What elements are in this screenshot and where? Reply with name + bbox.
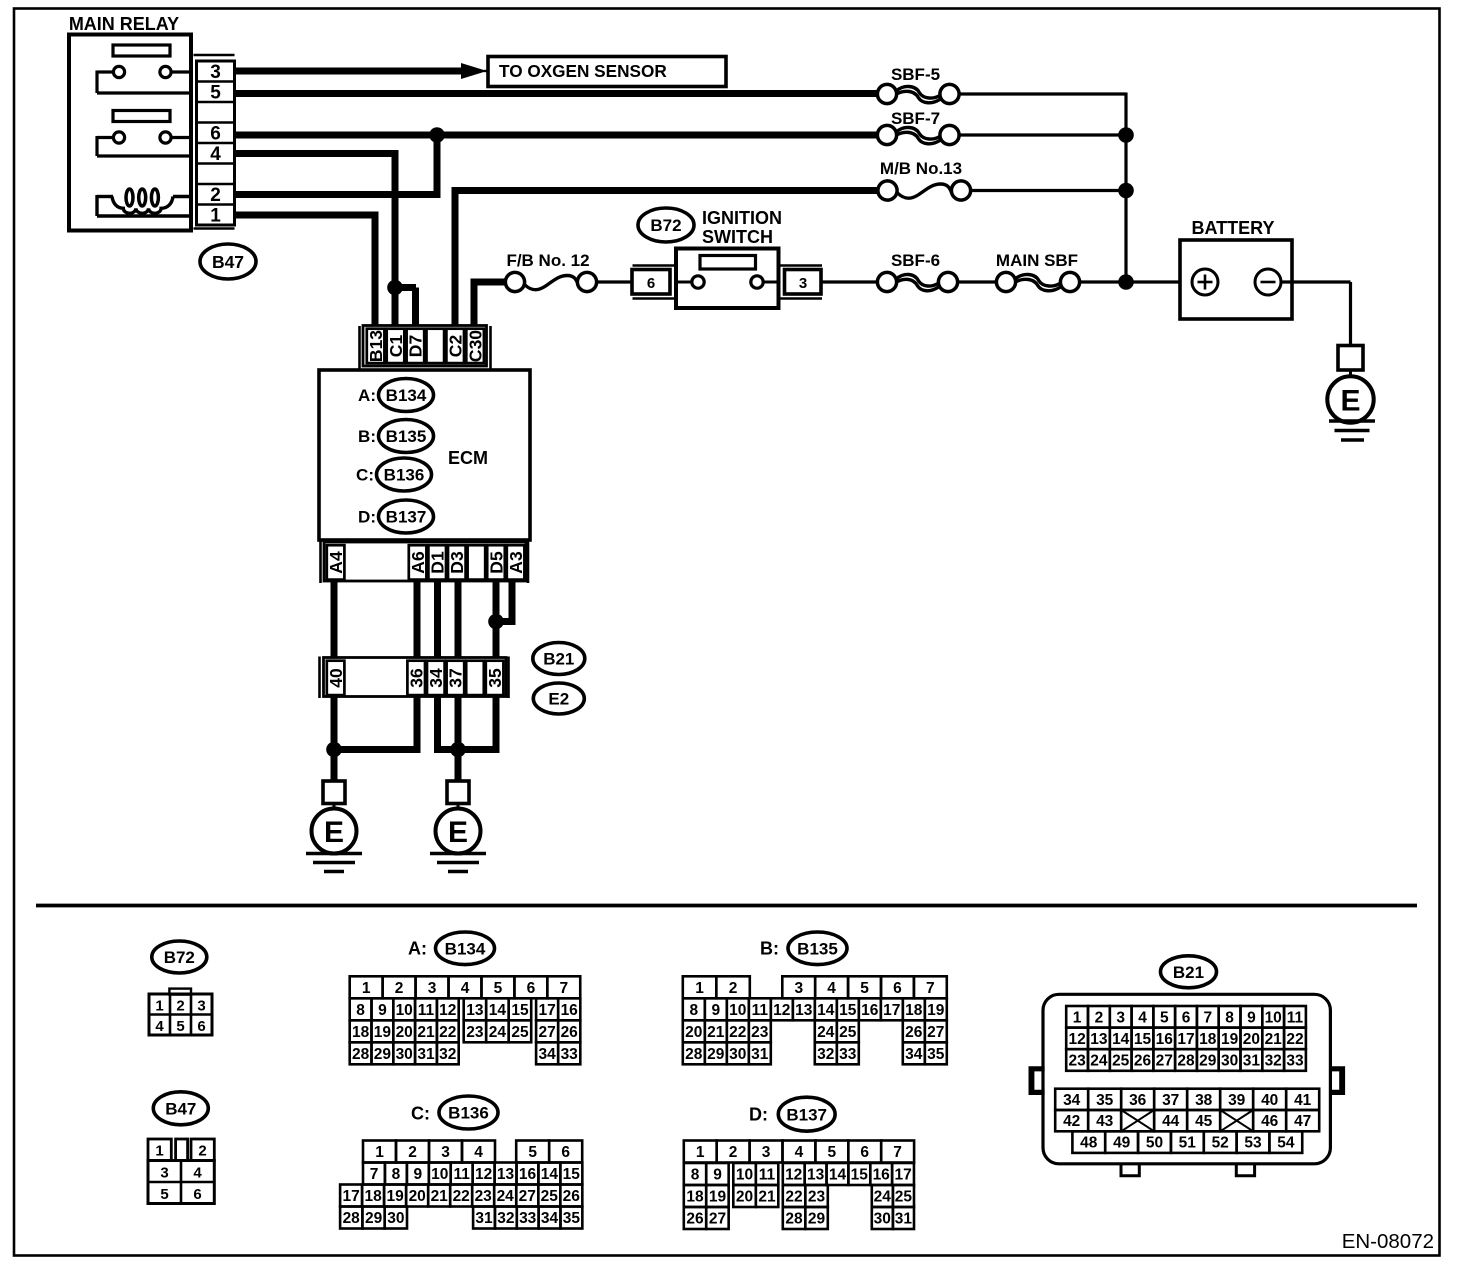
- svg-text:14: 14: [541, 1166, 559, 1183]
- svg-text:19: 19: [709, 1189, 727, 1206]
- wire pin6 to SBF-7: [235, 132, 878, 139]
- svg-text:21: 21: [417, 1024, 435, 1041]
- svg-text:9: 9: [1247, 1009, 1256, 1026]
- svg-text:5: 5: [528, 1144, 537, 1161]
- wire pin3 box to SBF-6: [822, 280, 878, 283]
- svg-text:B136: B136: [448, 1104, 489, 1123]
- svg-text:48: 48: [1080, 1135, 1098, 1152]
- svg-text:17: 17: [1177, 1031, 1194, 1048]
- svg-text:25: 25: [839, 1024, 857, 1041]
- svg-text:35: 35: [485, 668, 505, 688]
- svg-text:22: 22: [439, 1024, 456, 1041]
- connector ref B137 (bottom): [778, 1097, 835, 1131]
- svg-text:26: 26: [905, 1024, 923, 1041]
- svg-text:24: 24: [1090, 1053, 1108, 1070]
- svg-text:27: 27: [538, 1024, 555, 1041]
- svg-text:23: 23: [751, 1024, 769, 1041]
- svg-text:41: 41: [1294, 1092, 1312, 1109]
- svg-text:47: 47: [1294, 1113, 1311, 1130]
- svg-text:SBF-7: SBF-7: [891, 109, 940, 128]
- svg-text:20: 20: [736, 1189, 753, 1206]
- svg-text:31: 31: [895, 1211, 913, 1228]
- svg-text:25: 25: [541, 1188, 559, 1205]
- svg-text:30: 30: [396, 1046, 413, 1063]
- svg-text:B137: B137: [386, 508, 427, 527]
- svg-text:2: 2: [729, 980, 738, 997]
- connector B21 pin grid: [1055, 1006, 1319, 1153]
- svg-text:23: 23: [466, 1024, 484, 1041]
- svg-text:D7: D7: [406, 335, 426, 357]
- svg-text:34: 34: [1063, 1092, 1081, 1109]
- connector D B137 pin grid: [684, 1141, 914, 1230]
- svg-text:A6: A6: [408, 551, 428, 574]
- svg-text:BATTERY: BATTERY: [1192, 218, 1275, 238]
- svg-text:37: 37: [446, 668, 466, 687]
- wire C2 vertical: [452, 187, 459, 326]
- svg-text:B137: B137: [786, 1105, 827, 1124]
- svg-text:6: 6: [197, 1018, 205, 1035]
- svg-text:4: 4: [827, 980, 836, 997]
- connector label B21: [533, 643, 585, 675]
- wire D1 to 34: [434, 581, 441, 658]
- ground (left): [306, 854, 362, 872]
- svg-text:34: 34: [426, 668, 446, 688]
- svg-text:TO OXGEN SENSOR: TO OXGEN SENSOR: [499, 61, 667, 81]
- junction pin2/pin6: [429, 127, 445, 143]
- svg-text:MAIN SBF: MAIN SBF: [996, 251, 1078, 270]
- svg-text:E2: E2: [548, 690, 569, 709]
- svg-text:5: 5: [210, 83, 221, 104]
- svg-text:18: 18: [905, 1002, 923, 1019]
- ECM top connector strip (B13 C1 D7 C2 C30): [360, 326, 491, 370]
- ignition switch pin 6 box: [632, 266, 676, 299]
- svg-text:17: 17: [342, 1188, 359, 1205]
- svg-text:27: 27: [709, 1211, 726, 1228]
- svg-text:52: 52: [1212, 1135, 1229, 1152]
- svg-text:22: 22: [785, 1189, 802, 1206]
- wire D3 to 37: [455, 581, 462, 658]
- svg-text:20: 20: [1243, 1031, 1260, 1048]
- svg-text:14: 14: [1112, 1031, 1130, 1048]
- svg-text:51: 51: [1179, 1135, 1197, 1152]
- arrowhead: [461, 63, 487, 79]
- svg-text:5: 5: [176, 1018, 184, 1035]
- svg-text:ECM: ECM: [448, 448, 488, 468]
- ignition switch pin 3 box: [779, 266, 823, 299]
- svg-text:5: 5: [494, 980, 503, 997]
- connector label B72: [638, 208, 694, 242]
- connector label B47: [200, 244, 256, 279]
- svg-text:4: 4: [474, 1144, 483, 1161]
- svg-text:43: 43: [1096, 1113, 1114, 1130]
- svg-text:A:: A:: [358, 386, 376, 405]
- svg-text:B134: B134: [445, 939, 486, 958]
- svg-text:3: 3: [1116, 1009, 1125, 1026]
- svg-text:36: 36: [407, 668, 427, 688]
- svg-text:2: 2: [210, 185, 221, 206]
- svg-text:34: 34: [538, 1046, 556, 1063]
- svg-text:11: 11: [418, 1002, 435, 1019]
- svg-text:11: 11: [759, 1167, 776, 1184]
- fuse SBF-7: [877, 125, 959, 144]
- svg-text:14: 14: [489, 1002, 507, 1019]
- svg-text:18: 18: [1199, 1031, 1217, 1048]
- svg-text:D3: D3: [447, 551, 467, 574]
- svg-text:29: 29: [365, 1210, 383, 1227]
- svg-text:1: 1: [210, 206, 221, 227]
- relay contact 2: [97, 132, 191, 156]
- svg-text:C1: C1: [386, 335, 406, 358]
- svg-text:10: 10: [1265, 1009, 1282, 1026]
- svg-text:26: 26: [563, 1188, 581, 1205]
- battery: [1180, 240, 1292, 319]
- connector ref B136: [377, 458, 432, 491]
- svg-text:13: 13: [466, 1002, 484, 1019]
- svg-text:B21: B21: [543, 650, 574, 669]
- svg-text:8: 8: [392, 1166, 401, 1183]
- svg-text:23: 23: [475, 1188, 493, 1205]
- svg-text:2: 2: [198, 1143, 206, 1160]
- svg-text:32: 32: [1265, 1053, 1282, 1070]
- svg-text:32: 32: [817, 1046, 834, 1063]
- fuse MAIN SBF: [996, 272, 1079, 291]
- svg-text:12: 12: [439, 1002, 456, 1019]
- svg-text:14: 14: [829, 1167, 847, 1184]
- svg-text:32: 32: [497, 1210, 514, 1227]
- wire SBF-5 to bus: [959, 92, 1126, 95]
- wire 34 joins ground rail: [438, 696, 459, 750]
- junction bus/SBF-7: [1118, 127, 1134, 143]
- svg-text:5: 5: [160, 1186, 168, 1203]
- connector label E2: [533, 683, 584, 714]
- svg-text:21: 21: [1265, 1031, 1283, 1048]
- connector C B136 pin grid: [340, 1141, 582, 1229]
- svg-text:24: 24: [489, 1024, 507, 1041]
- ECM box U2: [319, 370, 530, 540]
- svg-text:4: 4: [193, 1165, 202, 1182]
- svg-text:23: 23: [808, 1189, 826, 1206]
- wire branch vertical to D7: [412, 288, 419, 327]
- wire SBF-7 to bus: [959, 133, 1126, 136]
- svg-text:1: 1: [155, 1143, 163, 1160]
- svg-text:13: 13: [795, 1002, 813, 1019]
- svg-text:C30: C30: [465, 330, 485, 362]
- fuse SBF-6: [877, 272, 957, 291]
- relay contact 2 slot: [113, 111, 170, 122]
- svg-text:1: 1: [1073, 1009, 1082, 1026]
- connector ref B136 (bottom): [439, 1096, 498, 1129]
- svg-text:40: 40: [1261, 1092, 1278, 1109]
- svg-text:21: 21: [707, 1024, 725, 1041]
- svg-text:40: 40: [326, 668, 346, 688]
- svg-text:13: 13: [497, 1166, 515, 1183]
- svg-text:B21: B21: [1173, 963, 1204, 982]
- svg-text:19: 19: [1221, 1031, 1239, 1048]
- svg-text:17: 17: [538, 1002, 555, 1019]
- wire A3 joins D5: [496, 581, 512, 622]
- svg-text:49: 49: [1113, 1135, 1131, 1152]
- svg-text:15: 15: [839, 1002, 857, 1019]
- ground (battery): [1329, 421, 1375, 440]
- svg-text:4: 4: [795, 1144, 804, 1161]
- svg-text:18: 18: [686, 1189, 704, 1206]
- svg-text:30: 30: [729, 1046, 746, 1063]
- svg-text:13: 13: [1090, 1031, 1108, 1048]
- connector B47 pin diagram: [148, 1139, 214, 1204]
- svg-text:22: 22: [729, 1024, 746, 1041]
- svg-text:37: 37: [1162, 1092, 1179, 1109]
- svg-text:B136: B136: [384, 466, 425, 485]
- svg-text:11: 11: [454, 1166, 471, 1183]
- svg-text:28: 28: [343, 1210, 361, 1227]
- svg-text:44: 44: [1162, 1113, 1180, 1130]
- svg-text:10: 10: [431, 1166, 448, 1183]
- svg-text:4: 4: [1138, 1009, 1147, 1026]
- svg-text:IGNITION: IGNITION: [702, 208, 782, 228]
- svg-text:26: 26: [1134, 1053, 1152, 1070]
- svg-text:1: 1: [362, 980, 371, 997]
- svg-text:22: 22: [1286, 1031, 1303, 1048]
- junction bus/MB13: [1118, 183, 1134, 199]
- svg-text:12: 12: [773, 1002, 790, 1019]
- svg-text:19: 19: [927, 1002, 945, 1019]
- fuse F/B No. 12: [505, 272, 596, 291]
- svg-text:42: 42: [1063, 1113, 1080, 1130]
- svg-text:E: E: [448, 816, 468, 849]
- svg-text:EN-08072: EN-08072: [1342, 1230, 1434, 1253]
- wire 40 to ground: [331, 696, 338, 781]
- svg-text:5: 5: [860, 980, 869, 997]
- svg-text:D:: D:: [358, 508, 376, 527]
- svg-text:25: 25: [895, 1189, 913, 1206]
- svg-text:11: 11: [752, 1002, 769, 1019]
- svg-text:B:: B:: [760, 939, 779, 959]
- fuse M/B No.13: [878, 181, 971, 200]
- svg-text:39: 39: [1228, 1092, 1246, 1109]
- connector B47 label (bottom): [153, 1092, 208, 1125]
- wire M/B No.13 to bus: [971, 189, 1127, 192]
- svg-text:24: 24: [497, 1188, 515, 1205]
- connector B B135 pin grid: [683, 976, 947, 1064]
- svg-text:13: 13: [807, 1167, 825, 1184]
- svg-text:15: 15: [1134, 1031, 1152, 1048]
- svg-text:36: 36: [1129, 1092, 1147, 1109]
- wire D5 to 35: [493, 581, 500, 658]
- ground terminal E (battery): [1327, 346, 1373, 423]
- svg-text:E: E: [1340, 384, 1360, 417]
- svg-text:16: 16: [561, 1002, 579, 1019]
- svg-text:C:: C:: [356, 466, 374, 485]
- wire pin2 horizontal: [235, 191, 441, 198]
- svg-text:B134: B134: [386, 386, 427, 405]
- wire A4 to 40: [331, 581, 338, 658]
- svg-text:7: 7: [893, 1144, 902, 1161]
- svg-text:35: 35: [563, 1210, 581, 1227]
- svg-text:F/B No. 12: F/B No. 12: [506, 251, 589, 270]
- svg-text:16: 16: [1156, 1031, 1174, 1048]
- svg-text:B135: B135: [797, 939, 838, 958]
- wire 37 to ground: [455, 696, 462, 781]
- svg-text:SWITCH: SWITCH: [702, 227, 773, 247]
- svg-text:6: 6: [527, 980, 536, 997]
- svg-text:6: 6: [210, 124, 221, 145]
- svg-text:24: 24: [874, 1189, 892, 1206]
- svg-text:4: 4: [461, 980, 470, 997]
- wire MAIN SBF to battery: [1080, 280, 1181, 283]
- svg-text:2: 2: [408, 1144, 417, 1161]
- svg-text:27: 27: [927, 1024, 944, 1041]
- svg-text:31: 31: [1243, 1053, 1261, 1070]
- svg-text:A3: A3: [506, 551, 526, 574]
- svg-text:33: 33: [839, 1046, 857, 1063]
- svg-text:16: 16: [861, 1002, 879, 1019]
- svg-text:9: 9: [413, 1166, 422, 1183]
- svg-text:B47: B47: [212, 252, 244, 272]
- svg-text:SBF-6: SBF-6: [891, 251, 940, 270]
- svg-text:30: 30: [1221, 1053, 1238, 1070]
- svg-text:33: 33: [1286, 1053, 1304, 1070]
- svg-text:45: 45: [1195, 1113, 1213, 1130]
- svg-text:1: 1: [375, 1144, 384, 1161]
- svg-text:C2: C2: [446, 335, 466, 358]
- svg-text:12: 12: [785, 1167, 802, 1184]
- svg-text:12: 12: [1068, 1031, 1085, 1048]
- svg-text:19: 19: [386, 1188, 404, 1205]
- svg-text:2: 2: [176, 998, 184, 1015]
- svg-text:6: 6: [193, 1186, 201, 1203]
- svg-text:30: 30: [874, 1211, 891, 1228]
- svg-text:6: 6: [1182, 1009, 1191, 1026]
- svg-text:B47: B47: [165, 1099, 196, 1118]
- svg-text:6: 6: [893, 980, 902, 997]
- svg-text:B135: B135: [386, 427, 427, 446]
- svg-text:29: 29: [374, 1046, 392, 1063]
- svg-text:7: 7: [1203, 1009, 1212, 1026]
- svg-text:6: 6: [647, 275, 655, 292]
- svg-text:9: 9: [711, 1002, 720, 1019]
- svg-text:33: 33: [561, 1046, 579, 1063]
- svg-text:MAIN RELAY: MAIN RELAY: [69, 14, 179, 34]
- svg-text:B72: B72: [650, 216, 681, 235]
- svg-text:3: 3: [762, 1144, 771, 1161]
- svg-text:11: 11: [1287, 1009, 1304, 1026]
- svg-text:3: 3: [794, 980, 803, 997]
- connector ref B135 (bottom): [788, 932, 847, 965]
- wire pin4 horizontal: [235, 150, 399, 157]
- junction 37/34/35: [450, 742, 466, 758]
- svg-text:B:: B:: [358, 427, 376, 446]
- svg-text:17: 17: [894, 1167, 911, 1184]
- svg-text:27: 27: [519, 1188, 536, 1205]
- svg-text:14: 14: [817, 1002, 835, 1019]
- wire C30 to F/B fuse: [474, 279, 506, 286]
- junction C1/D7 branch: [387, 280, 403, 296]
- svg-text:3: 3: [441, 1144, 450, 1161]
- svg-text:30: 30: [387, 1210, 404, 1227]
- connector strip B21/E2 (40 36 34 37 35): [320, 657, 509, 699]
- relay contact 1 slot: [113, 45, 170, 56]
- svg-text:4: 4: [210, 144, 221, 165]
- svg-text:31: 31: [417, 1046, 435, 1063]
- svg-text:D:: D:: [749, 1105, 768, 1125]
- svg-text:3: 3: [428, 980, 437, 997]
- svg-text:50: 50: [1146, 1135, 1163, 1152]
- wire C30 vertical: [471, 279, 478, 327]
- svg-text:18: 18: [364, 1188, 382, 1205]
- svg-text:2: 2: [1095, 1009, 1104, 1026]
- svg-text:7: 7: [559, 980, 568, 997]
- svg-text:27: 27: [1156, 1053, 1173, 1070]
- wire F/B to pin6 box: [597, 280, 633, 283]
- svg-text:3: 3: [197, 998, 205, 1015]
- wire pin1 horizontal: [235, 212, 379, 219]
- svg-text:3: 3: [160, 1165, 168, 1182]
- svg-text:1: 1: [155, 998, 163, 1015]
- section divider line: [36, 904, 1417, 908]
- svg-text:6: 6: [561, 1144, 570, 1161]
- svg-text:31: 31: [751, 1046, 769, 1063]
- svg-text:A:: A:: [408, 939, 427, 959]
- junction 40/36: [326, 742, 342, 758]
- svg-text:10: 10: [396, 1002, 413, 1019]
- wire C2 to M/B No.13: [455, 187, 878, 194]
- svg-text:18: 18: [352, 1024, 370, 1041]
- svg-text:1: 1: [696, 1144, 705, 1161]
- connector ref B134: [379, 379, 434, 412]
- wire 36 joins 40: [341, 696, 417, 750]
- wire pin2 riser to pin6 wire: [434, 132, 441, 195]
- svg-text:B13: B13: [366, 330, 386, 362]
- svg-text:21: 21: [758, 1189, 776, 1206]
- svg-text:SBF-5: SBF-5: [891, 65, 940, 84]
- svg-text:3: 3: [210, 62, 221, 83]
- svg-text:25: 25: [511, 1024, 529, 1041]
- junction D5/A3: [488, 614, 504, 630]
- svg-text:15: 15: [511, 1002, 529, 1019]
- svg-text:5: 5: [827, 1144, 836, 1161]
- ECM bottom connector strip (A4 A6 D1 D3 D5 A3): [321, 542, 529, 584]
- svg-text:17: 17: [883, 1002, 900, 1019]
- svg-text:28: 28: [685, 1046, 703, 1063]
- ignition switch U1: [676, 249, 779, 309]
- svg-text:10: 10: [736, 1167, 753, 1184]
- svg-text:10: 10: [729, 1002, 746, 1019]
- svg-text:A4: A4: [326, 551, 346, 574]
- svg-text:2: 2: [395, 980, 404, 997]
- svg-text:D5: D5: [486, 551, 506, 574]
- svg-text:34: 34: [541, 1210, 559, 1227]
- connector ref B135: [379, 420, 434, 453]
- TO OXGEN SENSOR box: [488, 57, 726, 87]
- svg-text:23: 23: [1068, 1053, 1086, 1070]
- svg-text:35: 35: [927, 1046, 945, 1063]
- wire 35 joins ground rail: [458, 696, 496, 750]
- ground terminal E (right): [436, 781, 481, 854]
- svg-text:B72: B72: [164, 948, 195, 967]
- svg-text:7: 7: [926, 980, 935, 997]
- svg-text:1: 1: [695, 980, 704, 997]
- svg-text:29: 29: [1199, 1053, 1217, 1070]
- svg-text:20: 20: [396, 1024, 413, 1041]
- ground terminal E (left): [312, 781, 357, 854]
- svg-text:8: 8: [356, 1002, 365, 1019]
- svg-text:9: 9: [713, 1167, 722, 1184]
- svg-text:16: 16: [519, 1166, 537, 1183]
- svg-text:29: 29: [707, 1046, 725, 1063]
- fuse SBF-5: [877, 84, 959, 103]
- bus vertical right: [1124, 93, 1127, 283]
- wire pin4 vertical to C1: [392, 154, 399, 327]
